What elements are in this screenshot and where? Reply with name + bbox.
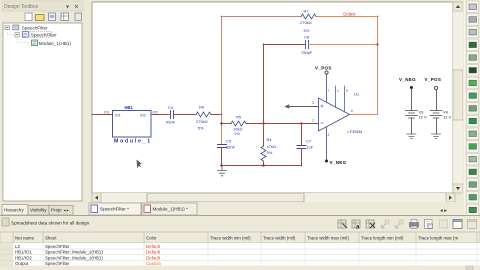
resistor R6 [196,112,211,117]
V_NEG source terminal dot [410,86,413,89]
ground under V4 [432,134,441,139]
wire input net L2 from pane edge to module [92,114,113,116]
top feedback wire left of R7 [221,16,301,18]
resistor R4 (vertical) [261,146,266,161]
mouse cursor [137,160,142,169]
svg-text:IO1: IO1 [115,114,121,118]
wire battery V4 to ground [436,118,438,134]
wire C8 branch horizontal [263,44,305,46]
tree row 2 (selected) [15,33,19,37]
svg-text:1: 1 [337,89,339,93]
ground under V3 [407,134,416,139]
wire R5 to op-amp inverting input (node Y) [246,123,319,125]
wire R4 top [263,123,265,146]
junction dot C8/output [376,43,378,45]
svg-text:5%: 5% [267,150,273,155]
tree row 1 [5,25,9,29]
bottom tabs [2,205,73,216]
svg-text:SpeechFilter: SpeechFilter [22,25,48,30]
svg-text:Spreadsheet data shown for all: Spreadsheet data shown for all design [11,221,90,226]
svg-text:Custom: Custom [146,261,161,266]
document tabs [85,202,465,216]
wire V_NEG dot to battery V3 [411,89,413,111]
svg-text:Module_1(HB1) *: Module_1(HB1) * [153,207,188,212]
svg-text:SpeechFilter; Module_1(HB1): SpeechFilter; Module_1(HB1) [45,255,103,260]
svg-text:IO2: IO2 [153,111,159,115]
node X vertical wire (to feedback & C5) [221,16,223,145]
svg-text:SpeechFilter: SpeechFilter [45,244,70,249]
junction dot rail/ground [220,164,222,166]
svg-text:6: 6 [351,109,353,113]
svg-text:✕: ✕ [74,5,79,11]
wire C7 bottom to rail [301,149,303,167]
svg-text:12 V: 12 V [419,115,428,120]
svg-text:HB1: HB1 [125,105,134,110]
V_NEG terminal dot [325,160,328,163]
svg-text:R4: R4 [267,137,273,142]
svg-text:750pF: 750pF [301,50,313,55]
svg-text:SpeechFilter; Module_1(HB1): SpeechFilter; Module_1(HB1) [45,250,103,255]
svg-text:LF356M: LF356M [348,129,363,134]
svg-text:V_POS: V_POS [425,77,442,82]
wire C4 to R6 [174,114,197,116]
svg-text:Visibility: Visibility [30,208,47,213]
op-amp pin 1 line [335,86,337,107]
svg-text:5%: 5% [198,126,204,131]
svg-text:C5: C5 [226,139,232,144]
battery V3 [405,111,417,119]
toolbar icons [25,13,82,21]
wire node X to R5 [221,123,231,125]
svg-text:Trace length min (mil): Trace length min (mil) [361,236,404,241]
svg-text:3: 3 [312,101,314,105]
bottom partial scrollbar [0,266,480,270]
svg-text:Module_1: Module_1 [114,139,152,145]
svg-text:270kΩ: 270kΩ [300,20,312,25]
schematic horizontal scrollbar [92,193,455,202]
Output net vertical wire [350,16,378,115]
Output net wire right of R7 (highlighted) [317,16,378,18]
svg-text:▾: ▾ [66,5,69,11]
svg-text:V_NEG: V_NEG [399,77,416,82]
svg-text:Trace width min (mil): Trace width min (mil) [210,236,251,241]
capacitor C7 [297,146,306,149]
svg-text:Module_1(HB1): Module_1(HB1) [39,41,72,46]
svg-text:R5: R5 [236,115,242,120]
wire R6 to node X [211,114,222,116]
header strip [2,218,9,226]
svg-text:1%: 1% [234,131,240,136]
svg-text:7: 7 [328,89,330,93]
op-amp U1 triangle [319,98,350,131]
op-amp pin 4 line [326,127,328,160]
svg-text:Trace length max (m: Trace length max (m [418,236,458,241]
capacitor C8 [306,41,309,49]
wire R4 bottom to ground rail [263,161,265,166]
svg-text:2: 2 [312,119,314,123]
svg-text:SpeechFilter *: SpeechFilter * [100,207,129,212]
wire module output to C4 [151,114,169,116]
wire non-inverting input [290,106,319,108]
svg-text:IO2: IO2 [140,114,146,118]
ground rail wire [221,165,302,167]
resistor R5 [231,121,246,126]
svg-text:R6: R6 [199,105,205,110]
capacitor C5 (on node X vertical) [218,145,227,148]
junction dot node Y / C7 [300,122,302,124]
svg-text:47kΩ: 47kΩ [267,144,276,149]
V_POS source terminal circle [434,86,437,89]
hierarchical block HB1 [113,111,152,138]
title bar [2,1,83,11]
svg-text:Color: Color [146,236,157,241]
wire V_POS circle to battery V4 [436,90,438,111]
op-amp pin 5 line [344,86,346,112]
svg-text:HB1/IO1: HB1/IO1 [15,250,32,255]
svg-text:C8: C8 [304,35,310,40]
svg-text:U1: U1 [354,92,360,97]
svg-text:Trace width max (mil): Trace width max (mil) [307,236,349,241]
svg-text:◂ ▸: ◂ ▸ [440,208,447,214]
tree row 3 [32,40,38,46]
battery V4 [430,111,442,119]
junction dot node Y / C8 branch [262,122,264,124]
tree area [3,23,82,201]
op-amp plus sign [321,105,323,107]
svg-text:Proje: Proje [51,208,62,213]
wire C8 to output vertical (highlighted) [309,44,379,46]
svg-text:Default: Default [146,250,161,255]
wire C8 branch left vertical from node Y [263,44,265,124]
svg-text:Hierarchy: Hierarchy [4,208,24,213]
column header row [0,232,480,266]
svg-text:V_NEG: V_NEG [330,160,347,165]
svg-text:R7: R7 [304,9,310,14]
svg-text:55nF: 55nF [166,120,176,125]
wire battery V3 to ground [411,118,413,134]
ground symbol [218,166,227,176]
svg-text:C7: C7 [306,139,312,144]
svg-text:V_POS: V_POS [315,66,332,71]
svg-text:4: 4 [328,133,330,137]
capacitor C4 [171,111,174,119]
svg-text:1uF: 1uF [307,146,314,150]
svg-text:◂ ▸: ◂ ▸ [64,208,69,213]
svg-text:HB1/IO2: HB1/IO2 [15,255,32,260]
svg-text:Default: Default [146,244,161,249]
svg-text:SpeechFilter: SpeechFilter [45,261,70,266]
data rows [0,243,480,266]
input arrow connector [284,104,289,108]
svg-text:Output: Output [343,12,356,17]
svg-text:IO1: IO1 [104,111,110,115]
resistor R7 [301,14,316,19]
junction dot rail/R4 [262,164,264,166]
svg-text:Default: Default [146,255,161,260]
svg-text:L2: L2 [15,244,20,249]
svg-text:68nF: 68nF [226,145,236,150]
junction dot node X / R5 branch [220,122,222,124]
vertical scrollbar [453,2,463,193]
svg-text:5%: 5% [304,28,310,33]
svg-text:C4: C4 [168,105,174,110]
svg-text:Net name: Net name [15,236,35,241]
svg-text:270kΩ: 270kΩ [196,119,208,124]
svg-text:5: 5 [346,89,348,93]
svg-text:SpeechFilter: SpeechFilter [31,32,57,37]
svg-text:12 V: 12 V [443,115,452,120]
op-amp pin 7 line [326,74,328,103]
wire C5 bottom to rail [221,148,223,167]
svg-text:Sheet: Sheet [45,236,57,241]
wire C7 top [301,123,303,146]
svg-text:Trace width (mil): Trace width (mil) [263,236,296,241]
toolbar icons [338,220,477,231]
svg-text:Design Toolbox: Design Toolbox [4,4,39,10]
op-amp minus sign [321,122,323,124]
svg-text:Output: Output [15,261,29,266]
V_POS terminal circle [325,71,328,74]
